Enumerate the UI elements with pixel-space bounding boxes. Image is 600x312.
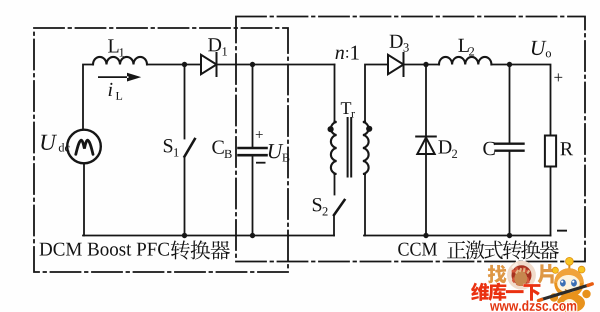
transformer Tr primary winding <box>331 122 337 175</box>
diode D1 <box>201 53 217 76</box>
junction node C top <box>507 62 512 67</box>
label S1 <box>164 139 173 152</box>
diode D3 <box>388 53 404 76</box>
capacitor CB <box>252 65 254 148</box>
transformer Tr core <box>347 118 349 177</box>
inductor L2 <box>439 57 491 65</box>
junction node CB top <box>250 62 255 67</box>
label minus output <box>557 230 567 232</box>
wire Udc bottom <box>83 163 85 235</box>
caption CCM forward converter <box>398 243 437 256</box>
wire L2 to right corner <box>491 65 550 136</box>
wire bottom primary side <box>83 235 334 237</box>
transformer secondary lead to top wire <box>364 174 366 236</box>
inductor L1 <box>93 57 147 65</box>
label L1 <box>108 39 118 52</box>
wire top-left corner to L1 <box>83 65 93 130</box>
watermark mascot <box>539 257 593 312</box>
transformer Tr primary lead <box>334 65 336 122</box>
switch S2 <box>334 174 336 195</box>
wire bottom secondary side <box>364 235 551 237</box>
label CB <box>212 140 223 153</box>
switch S1 <box>184 65 186 139</box>
label plus CB <box>256 131 263 138</box>
label L2 <box>458 39 468 52</box>
label n:1 <box>336 50 344 59</box>
caption DCM Boost PFC converter <box>40 243 169 256</box>
transformer Tr secondary winding <box>363 122 369 175</box>
label R <box>560 142 573 155</box>
wire D3 to L2 <box>404 64 440 66</box>
arrow iL <box>98 73 141 82</box>
watermark weiku-yixia red text <box>471 283 540 301</box>
junction node S1 bottom <box>182 233 187 238</box>
junction node D2 top <box>423 62 428 67</box>
junction node C bottom <box>507 233 512 238</box>
label plus output <box>554 73 562 81</box>
label Tr <box>341 102 351 114</box>
watermark zhao-xin-pian text <box>488 264 556 284</box>
label minus CB <box>256 162 266 164</box>
diode D2 <box>425 65 427 236</box>
junction node D2 bottom <box>423 233 428 238</box>
label D3 <box>390 35 403 48</box>
mascot pen <box>542 285 590 300</box>
label Uo <box>532 41 547 55</box>
label D2 <box>438 140 451 153</box>
label iL <box>109 83 113 96</box>
polarity dot primary <box>328 126 334 132</box>
wire D1 to transformer primary <box>217 64 335 66</box>
watermark magnifier <box>509 263 533 287</box>
junction node CB bottom <box>250 233 255 238</box>
watermark url www.dzsc.com <box>490 300 576 311</box>
polarity dot secondary <box>366 126 372 132</box>
label UB <box>269 144 284 158</box>
wire L1 to D1 <box>147 64 201 66</box>
label C <box>483 142 494 155</box>
boundary box DCM Boost PFC converter <box>34 28 288 272</box>
label D1 <box>208 38 221 51</box>
source Udc <box>67 130 101 164</box>
label Udc <box>41 135 57 150</box>
junction node S1 top <box>182 62 187 67</box>
capacitor C <box>509 65 511 144</box>
label S2 <box>313 198 322 211</box>
resistor R <box>545 136 556 167</box>
boundary box CCM forward converter <box>236 17 585 262</box>
